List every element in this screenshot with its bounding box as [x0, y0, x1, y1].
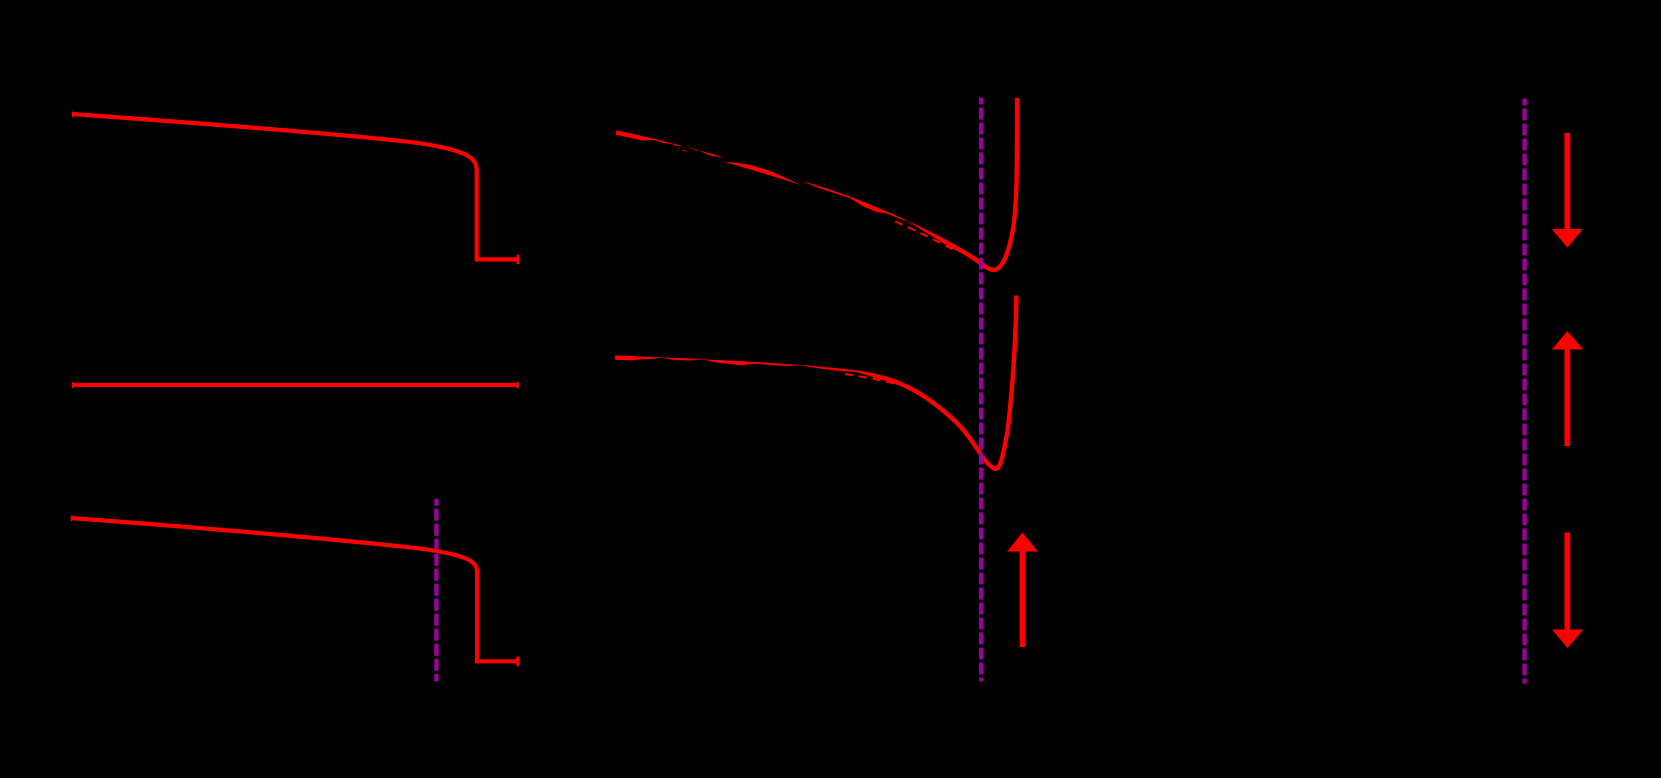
- node F3 start tick: [71, 515, 73, 521]
- wire top-left force curve F1: [72, 114, 519, 259]
- node right arrow 2 head: [1552, 331, 1583, 350]
- wire right arrow 1 shaft (down): [1564, 133, 1570, 230]
- wire right arrow 2 shaft (up): [1564, 349, 1570, 446]
- node F1 start tick: [72, 111, 74, 117]
- node right purple dashed vertical: [1522, 99, 1526, 684]
- wire middle top energy curve E1: [616, 98, 1017, 270]
- node F2 left tick: [72, 382, 74, 388]
- wire bottom-left force curve F3: [71, 518, 519, 661]
- wire middle up arrow shaft: [1020, 551, 1026, 648]
- wire faint dashed strand E1: [895, 222, 955, 251]
- node middle purple dashed vertical: [979, 98, 983, 682]
- wire middle-left flat line F2: [72, 383, 519, 387]
- wire middle lower energy curve E2: [615, 296, 1016, 469]
- node F3 tail end tick: [516, 657, 519, 667]
- wire black dash overlay E1: [640, 142, 957, 254]
- node F1 tail end tick: [516, 255, 519, 265]
- node right arrow 3 head: [1552, 630, 1583, 649]
- wire right arrow 3 shaft (down): [1564, 533, 1570, 631]
- wire black dash overlay E2: [628, 360, 881, 383]
- node right arrow 1 head: [1552, 229, 1583, 248]
- wire faint dashed strand E2: [845, 374, 905, 386]
- node F2 right tick: [517, 382, 519, 389]
- node left purple dashed vertical: [434, 499, 438, 682]
- node middle up arrow head: [1007, 533, 1038, 552]
